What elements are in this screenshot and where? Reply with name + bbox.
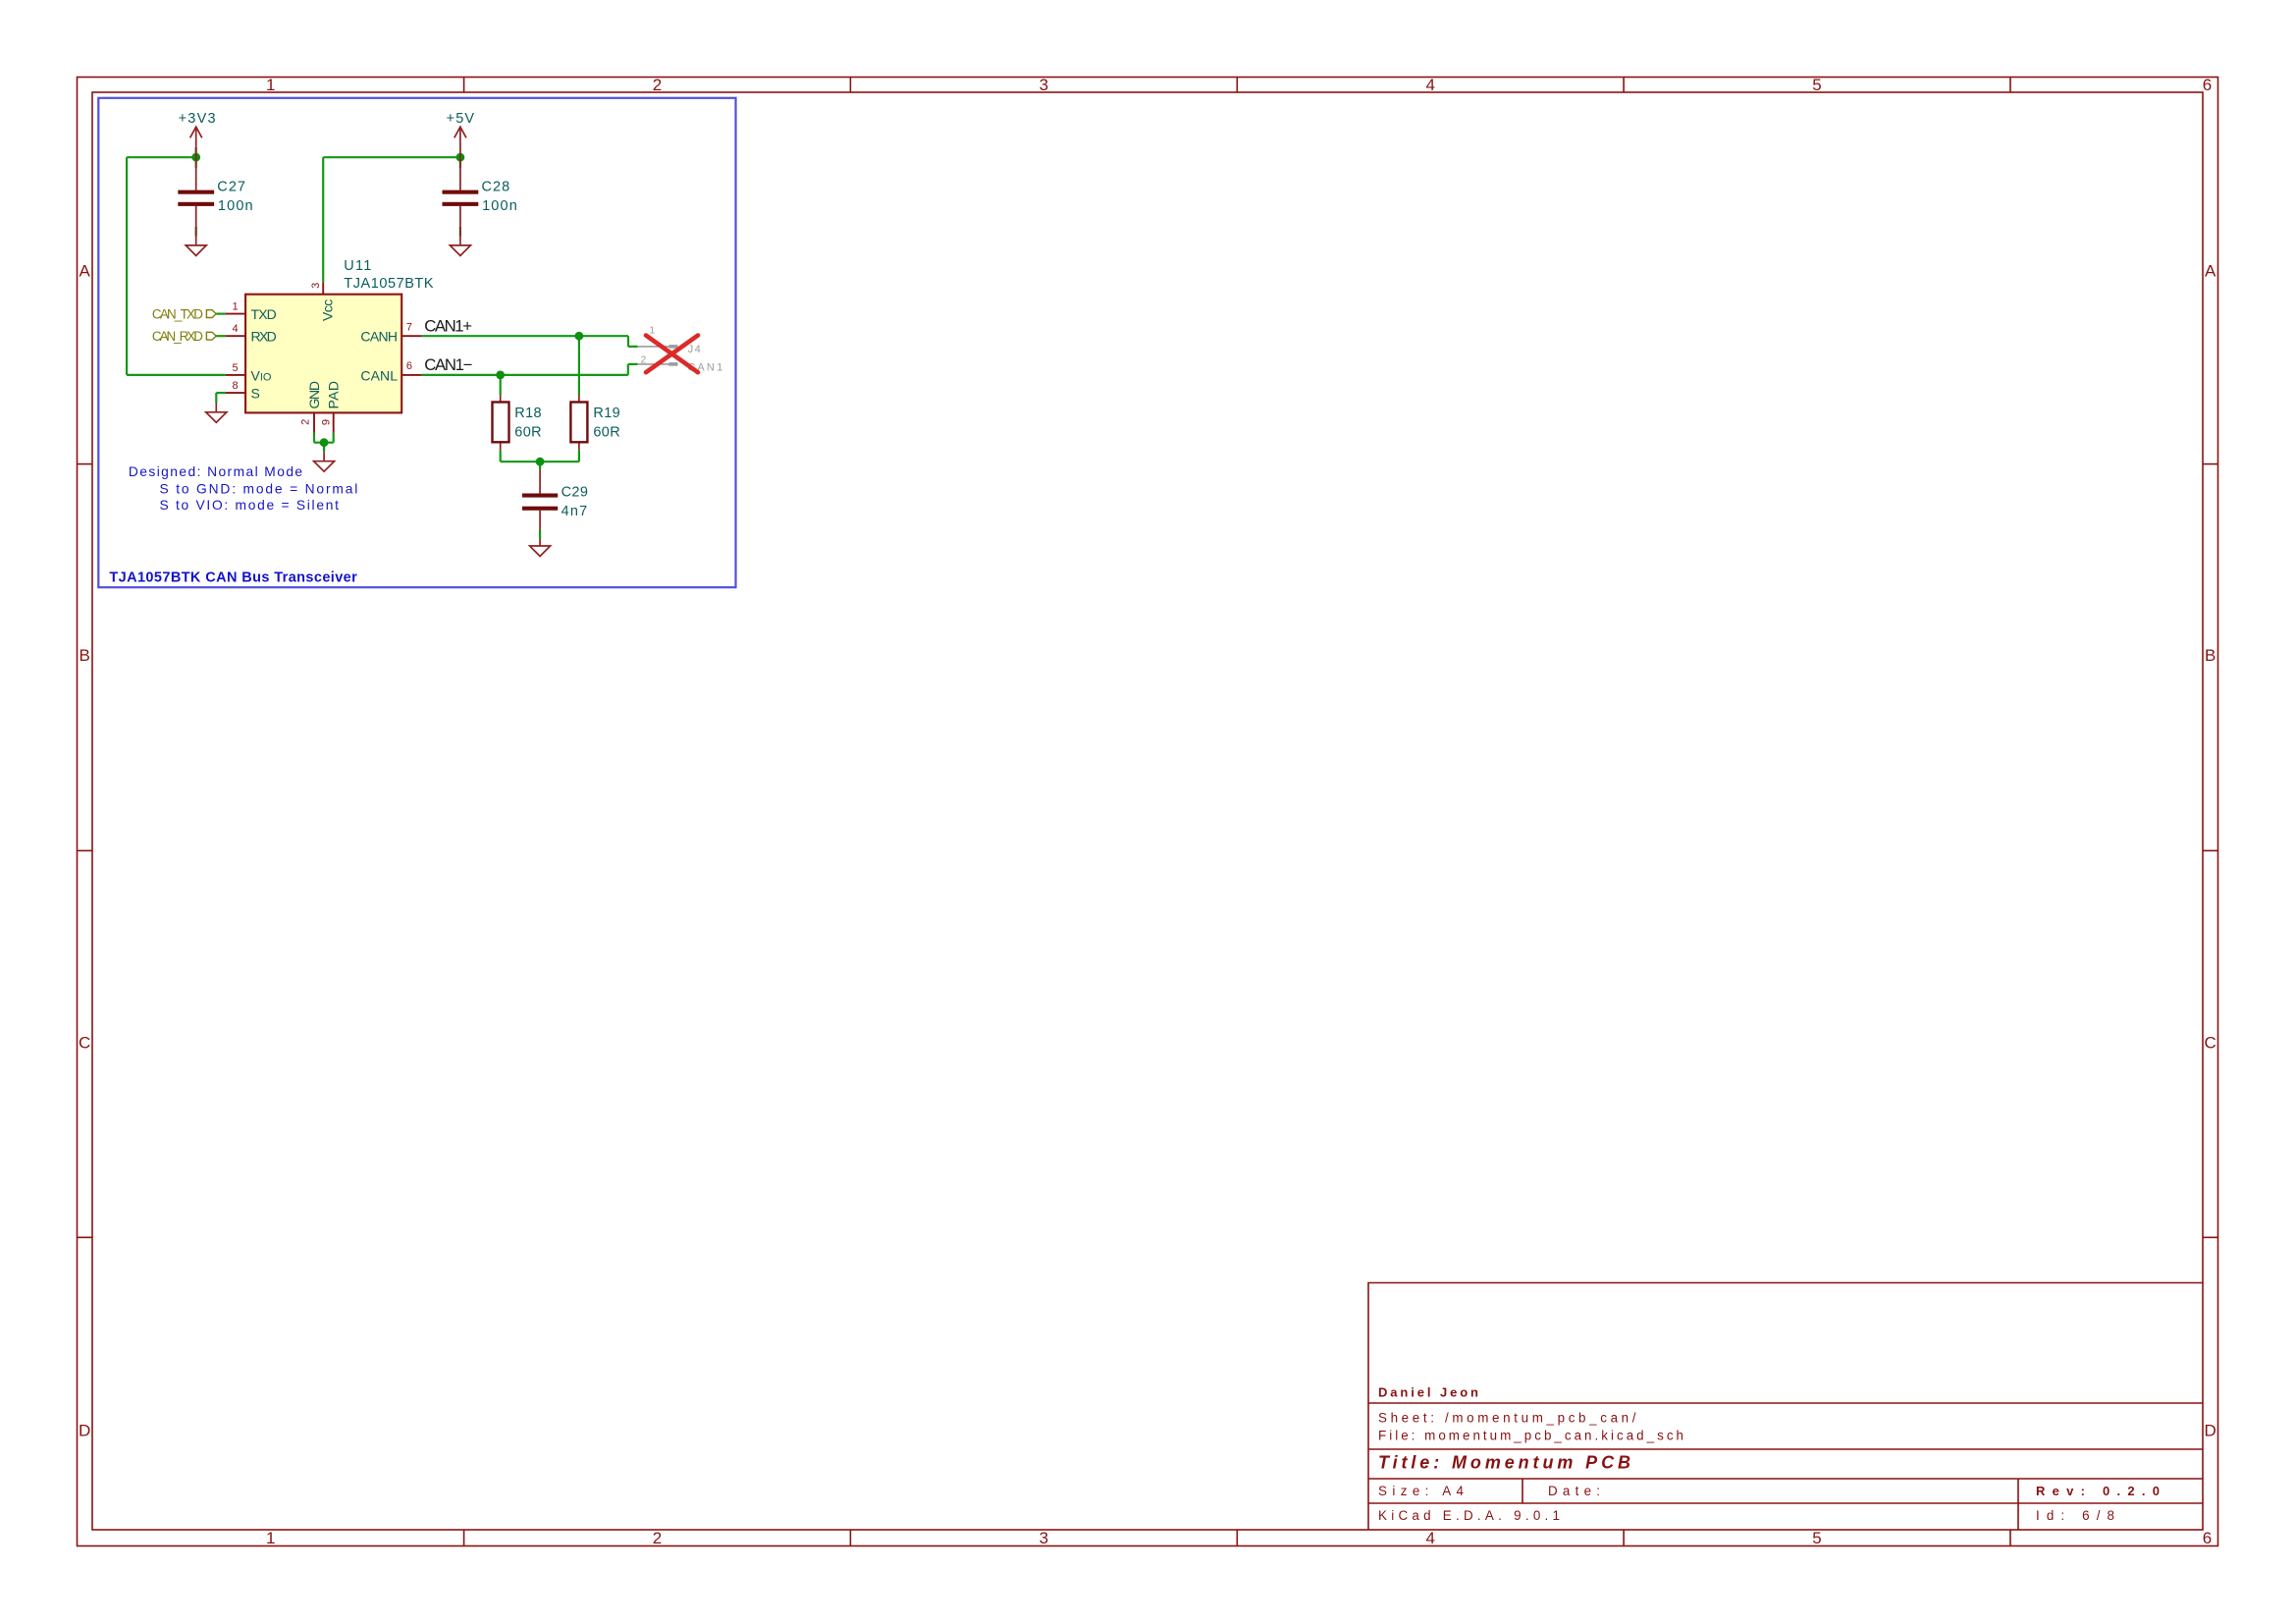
svg-text:3: 3 (1040, 1529, 1048, 1547)
svg-text:TXD: TXD (251, 306, 277, 322)
svg-text:C29: C29 (561, 484, 588, 500)
svg-text:A: A (80, 262, 91, 281)
svg-text:6: 6 (2203, 76, 2212, 94)
svg-text:1: 1 (266, 1529, 275, 1547)
svg-text:File: momentum_pcb_can.kicad_s: File: momentum_pcb_can.kicad_sch (1378, 1429, 1683, 1443)
svg-text:2: 2 (653, 1529, 662, 1547)
svg-text:+3V3: +3V3 (179, 111, 216, 127)
svg-text:7: 7 (406, 321, 412, 333)
svg-text:Daniel Jeon: Daniel Jeon (1378, 1385, 1478, 1400)
svg-text:RXD: RXD (251, 329, 277, 345)
svg-text:Vcc: Vcc (320, 299, 336, 321)
svg-text:6: 6 (2203, 1529, 2212, 1547)
svg-text:1: 1 (650, 324, 656, 336)
svg-text:B: B (2205, 646, 2216, 665)
svg-text:S: S (251, 386, 260, 402)
svg-text:+5V: +5V (447, 111, 475, 127)
svg-text:6: 6 (406, 360, 412, 372)
svg-text:R18: R18 (514, 406, 541, 421)
svg-text:100n: 100n (482, 198, 517, 214)
svg-text:D: D (2205, 1422, 2216, 1440)
svg-text:2: 2 (641, 353, 647, 365)
svg-text:5: 5 (1812, 1529, 1821, 1547)
svg-text:B: B (80, 646, 90, 665)
svg-text:TJA1057BTK: TJA1057BTK (344, 276, 434, 292)
svg-text:C: C (79, 1034, 90, 1053)
svg-text:C: C (2205, 1034, 2216, 1053)
svg-text:U11: U11 (344, 258, 371, 274)
svg-text:R19: R19 (593, 406, 619, 421)
svg-text:CANL: CANL (360, 367, 398, 383)
svg-text:2: 2 (299, 419, 311, 425)
svg-text:4: 4 (232, 323, 238, 335)
svg-text:1: 1 (266, 76, 275, 94)
svg-text:5: 5 (1812, 76, 1821, 94)
svg-text:A: A (2205, 262, 2216, 281)
svg-text:4: 4 (1425, 76, 1434, 94)
svg-text:5: 5 (232, 362, 238, 374)
svg-text:CANH: CANH (360, 329, 398, 345)
svg-text:3: 3 (310, 283, 322, 289)
svg-text:4: 4 (1425, 1529, 1434, 1547)
svg-text:C28: C28 (482, 180, 510, 195)
svg-text:9: 9 (321, 419, 333, 425)
svg-text:3: 3 (1040, 76, 1048, 94)
svg-text:D: D (79, 1422, 90, 1440)
svg-text:CAN1−: CAN1− (424, 355, 472, 374)
svg-text:60R: 60R (593, 424, 619, 440)
svg-text:100n: 100n (218, 198, 253, 214)
svg-text:C27: C27 (217, 180, 245, 195)
svg-text:TJA1057BTK CAN Bus Transceiver: TJA1057BTK CAN Bus Transceiver (109, 570, 357, 586)
svg-text:CAN1+: CAN1+ (424, 317, 472, 336)
svg-text:60R: 60R (514, 424, 541, 440)
svg-text:J4: J4 (688, 344, 701, 355)
svg-text:8: 8 (232, 380, 238, 392)
svg-text:4n7: 4n7 (561, 504, 588, 519)
svg-text:S to VIO: mode = Silent: S to VIO: mode = Silent (160, 498, 340, 513)
svg-text:CAN_TXD: CAN_TXD (152, 306, 203, 321)
svg-text:PAD: PAD (326, 381, 342, 409)
svg-text:CAN_RXD: CAN_RXD (152, 329, 203, 344)
svg-text:KiCad E.D.A. 9.0.1: KiCad E.D.A. 9.0.1 (1378, 1508, 1560, 1523)
svg-text:Designed: Normal Mode: Designed: Normal Mode (129, 464, 303, 479)
svg-text:GND: GND (306, 381, 322, 409)
svg-text:2: 2 (653, 76, 662, 94)
svg-text:1: 1 (232, 301, 238, 313)
